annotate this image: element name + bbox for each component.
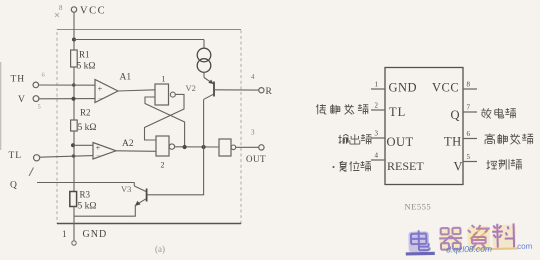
node R2-R3 junction	[71, 143, 75, 147]
pin 3 OUT	[371, 130, 414, 150]
VCC terminal pin 8	[59, 4, 106, 17]
svg-text:TL: TL	[389, 105, 406, 119]
svg-text:V3: V3	[121, 184, 131, 194]
wire TH to comparator A1	[39, 84, 95, 86]
node latch output junction 1	[183, 145, 187, 149]
svg-text:R3: R3	[80, 190, 91, 200]
current source	[197, 40, 211, 78]
node V divider junction	[72, 97, 76, 101]
svg-text:5: 5	[38, 104, 41, 111]
svg-text:+: +	[98, 84, 103, 94]
svg-text:2: 2	[375, 102, 379, 110]
svg-text:VCC: VCC	[80, 6, 106, 17]
wire latch cross G2 out to G1 in	[145, 97, 185, 147]
svg-text:5 kΩ: 5 kΩ	[77, 62, 96, 72]
wire R3 to GND	[73, 207, 75, 241]
label discharge terminal pin7	[481, 108, 515, 118]
IC internal boundary box	[57, 30, 241, 224]
label control terminal pin5	[487, 159, 522, 170]
svg-text:1: 1	[162, 75, 166, 84]
svg-text:A2: A2	[122, 139, 134, 149]
wire V2 base to R terminal	[215, 89, 259, 91]
wire V3 emitter to ground rail	[74, 205, 135, 216]
NE555 IC body	[385, 68, 463, 185]
TL trigger terminal pin 2	[9, 151, 40, 161]
svg-text:TH: TH	[11, 75, 26, 85]
svg-text:4: 4	[375, 152, 379, 160]
wire A1 output to gate 1	[118, 90, 155, 91]
label high trigger terminal pin6	[485, 134, 533, 145]
wire inverter to OUT	[236, 146, 259, 148]
TH terminal pin 6	[11, 72, 46, 88]
wire Q to V3 collector	[37, 182, 134, 184]
svg-text:1: 1	[62, 229, 67, 239]
svg-text:5 kΩ: 5 kΩ	[78, 123, 97, 133]
OUT terminal pin 3	[246, 129, 266, 165]
pin number 2 mark	[29, 168, 34, 177]
wire TL to comparator A2	[40, 156, 93, 158]
op-amp comparator A1	[95, 73, 131, 104]
svg-text:R2: R2	[80, 108, 91, 118]
watermark 电器资料	[405, 223, 533, 256]
pin 2 TL	[371, 102, 406, 120]
svg-text:TL: TL	[9, 151, 23, 161]
resistor R3	[70, 190, 97, 212]
pin 7 Q	[451, 104, 478, 123]
svg-text:(a): (a)	[155, 244, 165, 254]
transistor V3 discharge NPN	[121, 182, 147, 206]
svg-text:OUT: OUT	[246, 154, 266, 164]
node latch output junction 2	[202, 145, 206, 149]
svg-text:1: 1	[375, 81, 379, 89]
svg-text:V2: V2	[186, 83, 196, 93]
pin 4 RESET	[371, 152, 424, 174]
V control terminal pin 5	[18, 95, 41, 111]
svg-text:GND: GND	[83, 229, 108, 240]
svg-text:−: −	[96, 151, 101, 160]
wire latch node to V2 collector	[203, 99, 205, 147]
svg-text:6: 6	[467, 130, 471, 138]
node TH crossing blob	[72, 83, 76, 87]
transistor V2 reset PNP	[186, 78, 215, 100]
pin 8 VCC	[432, 81, 477, 95]
pin 1 GND	[371, 81, 417, 95]
wire V to comparator A1	[39, 98, 95, 100]
svg-text:R1: R1	[79, 50, 90, 60]
svg-text:8: 8	[59, 4, 63, 12]
svg-text:Q: Q	[451, 108, 460, 122]
svg-text:8: 8	[467, 81, 471, 89]
svg-text:7: 7	[467, 104, 471, 112]
svg-text:3: 3	[375, 130, 379, 138]
GND terminal pin 1	[62, 229, 107, 245]
wire latch node to V3 base	[147, 147, 203, 195]
svg-text:R: R	[266, 87, 273, 97]
svg-text:2: 2	[161, 161, 165, 170]
svg-text:OUT: OUT	[387, 135, 414, 149]
svg-text:4: 4	[251, 73, 255, 81]
label reset terminal pin4	[333, 161, 371, 171]
Q discharge terminal pin 7	[10, 181, 17, 191]
svg-text:com: com	[517, 242, 533, 251]
scan corner mark	[55, 13, 59, 17]
svg-text:A1: A1	[120, 73, 132, 83]
wire R2 to R3	[73, 131, 75, 192]
gate G2 of RS latch	[156, 136, 175, 170]
svg-text:RESET: RESET	[387, 159, 424, 173]
node VCC rail junction	[72, 38, 76, 42]
resistor R2	[71, 108, 97, 134]
wire VCC top rail	[74, 39, 204, 41]
label low trigger terminal pin2	[316, 104, 368, 114]
pin 6 TH	[444, 130, 477, 149]
scan edge artifact	[0, 62, 2, 150]
svg-text:VCC: VCC	[432, 81, 459, 95]
svg-text:V: V	[454, 160, 463, 174]
wire A2 output to gate 2	[116, 150, 156, 153]
wire VCC vertical	[73, 12, 75, 50]
inverter output buffer	[219, 139, 236, 156]
op-amp comparator A2	[93, 139, 134, 160]
svg-text:d.qzl08.com: d.qzl08.com	[446, 244, 492, 255]
wire divider to comparator A2	[73, 144, 93, 146]
svg-text:Q: Q	[10, 181, 17, 191]
wire latch cross G1 out to G2 in	[145, 94, 185, 140]
wire R1 to R2	[73, 67, 75, 120]
svg-text:TH: TH	[444, 135, 462, 149]
svg-text:V: V	[18, 95, 25, 105]
svg-text:3: 3	[251, 129, 255, 137]
svg-text:GND: GND	[389, 81, 418, 95]
node TL crossing blob	[72, 154, 76, 158]
svg-text:5: 5	[467, 153, 471, 161]
resistor R1	[71, 50, 96, 72]
label output terminal pin3	[338, 134, 371, 144]
pin 5 V	[454, 153, 478, 174]
gate G1 of RS latch	[155, 75, 175, 106]
svg-text:6: 6	[42, 72, 46, 79]
svg-text:NE555: NE555	[405, 202, 432, 212]
svg-text:−: −	[98, 94, 103, 103]
wire G2 output to inverter	[175, 146, 219, 148]
svg-text:5 kΩ: 5 kΩ	[78, 202, 97, 212]
R reset terminal pin 4	[251, 73, 273, 97]
